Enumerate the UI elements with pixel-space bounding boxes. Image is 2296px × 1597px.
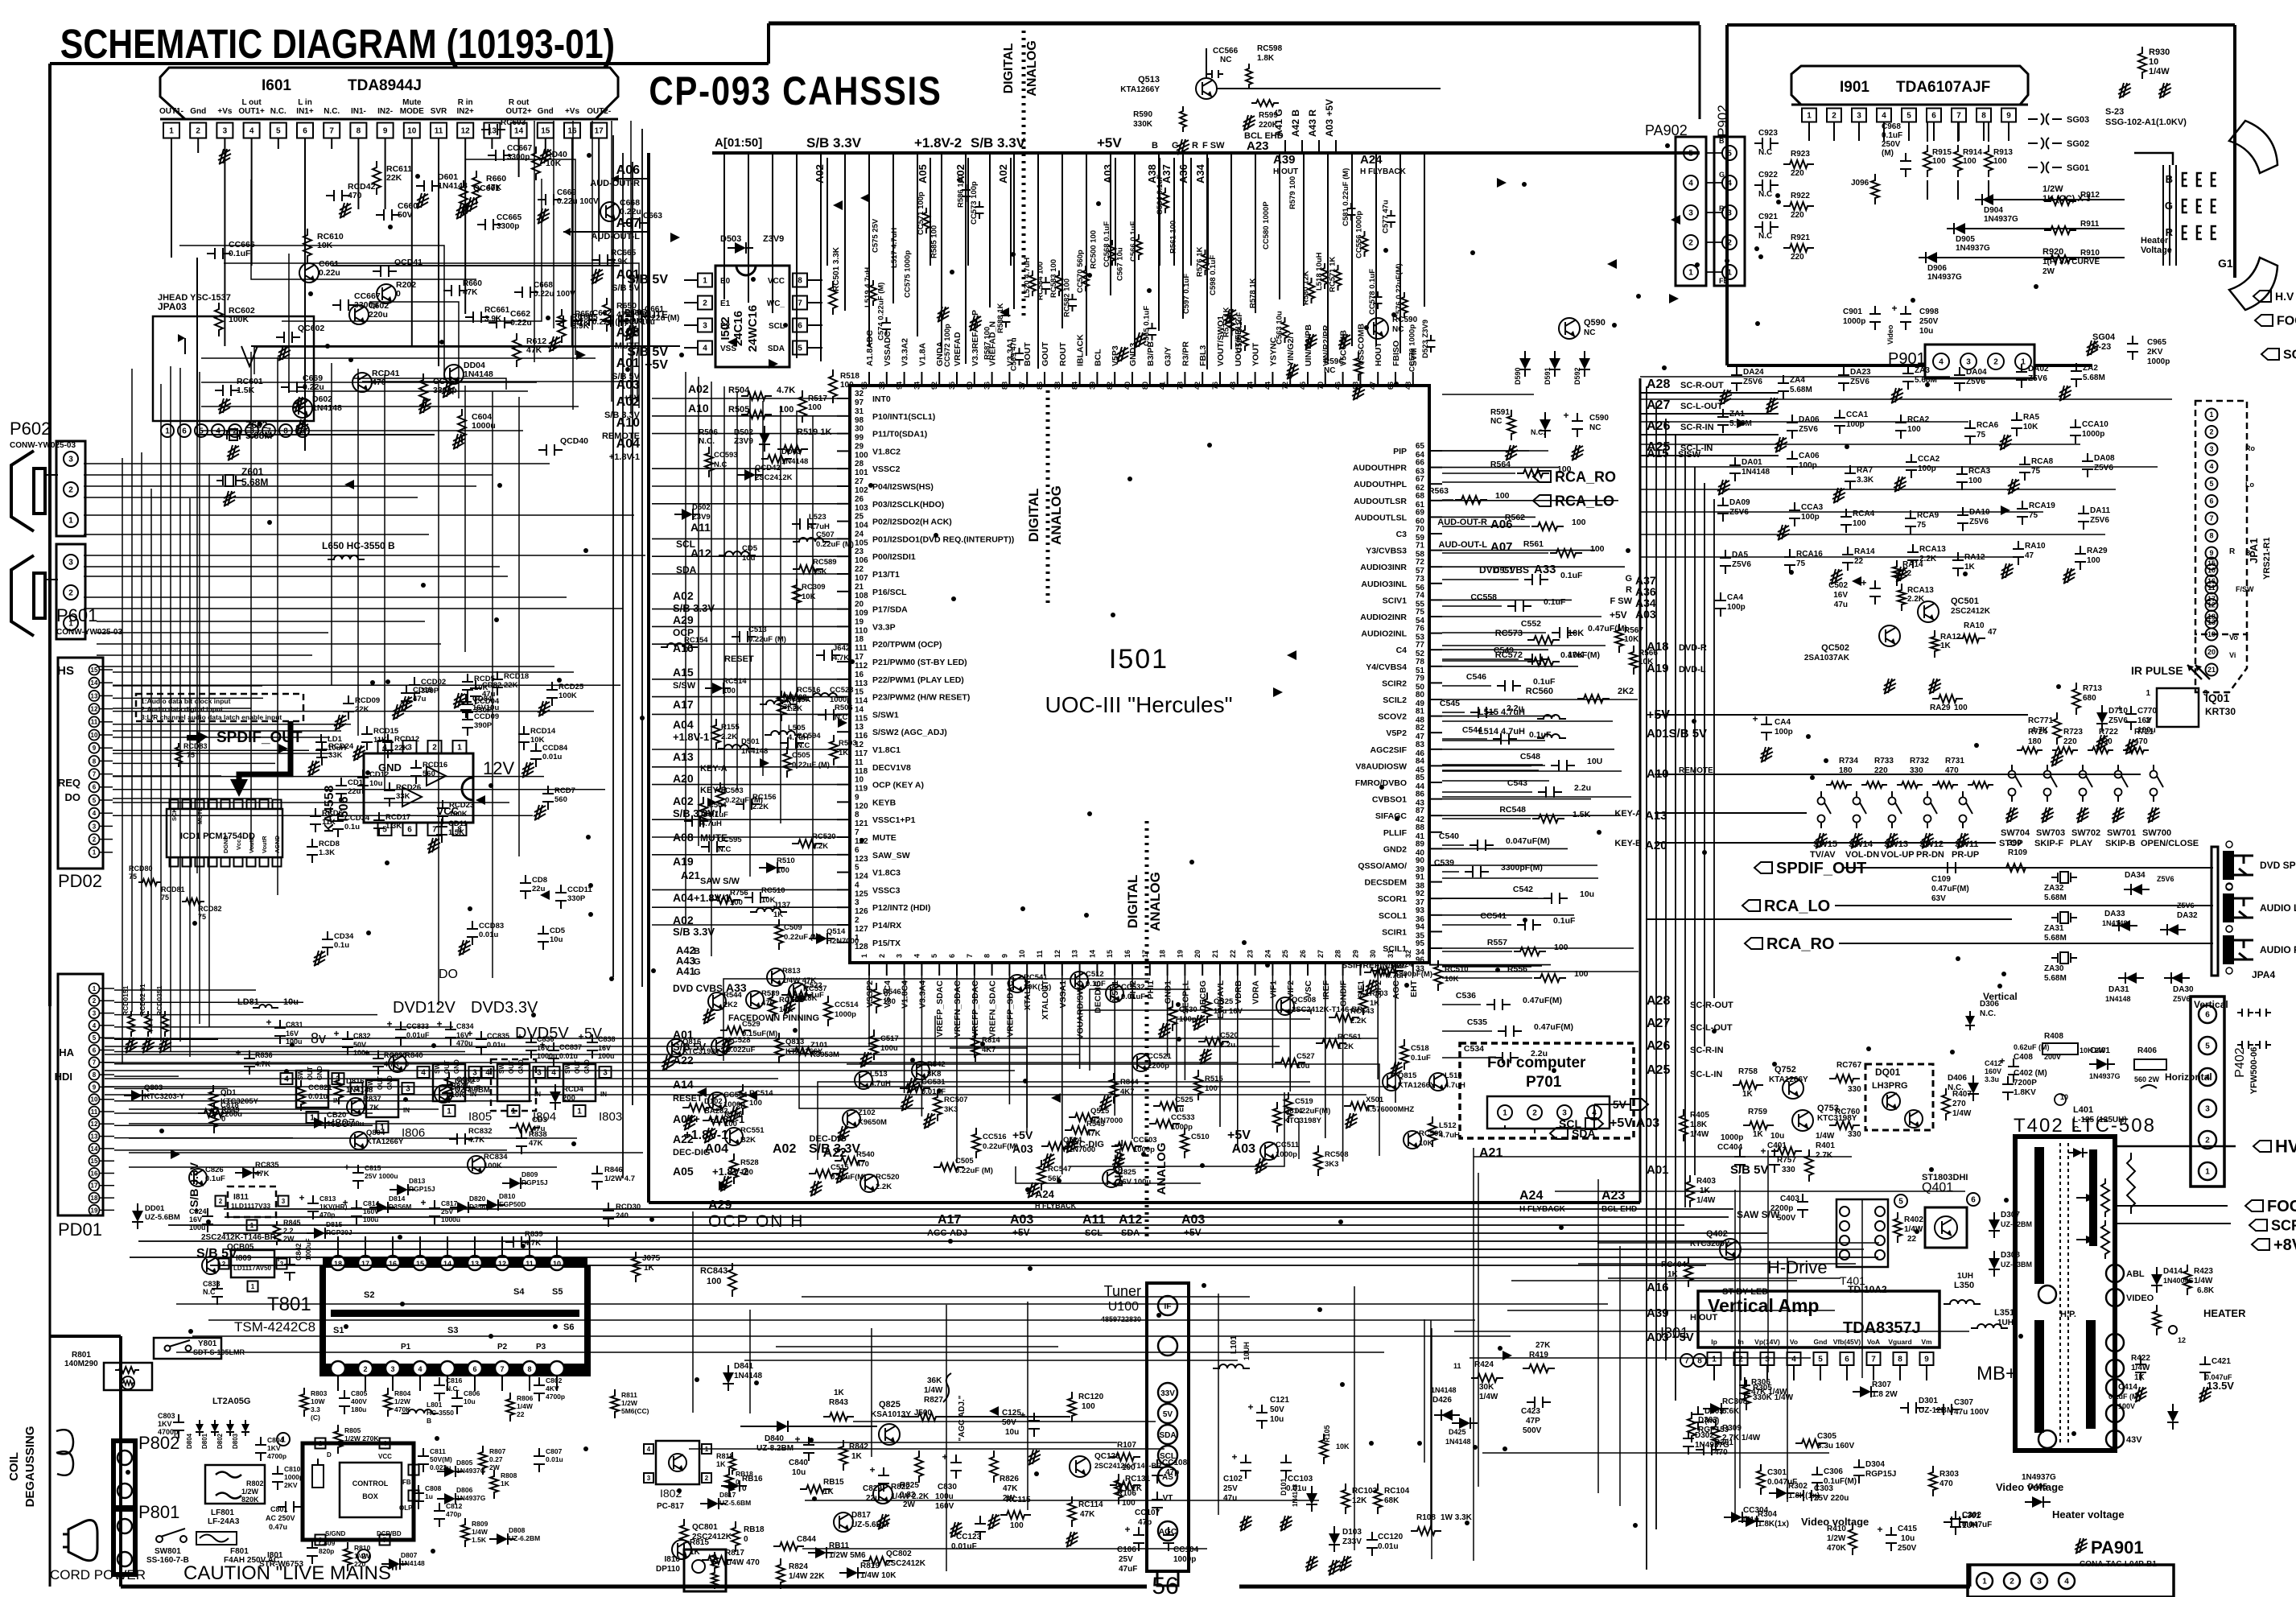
svg-text:R564: R564 [1490, 460, 1511, 469]
svg-text:C598 0.1uF: C598 0.1uF [1209, 255, 1218, 295]
svg-text:C808: C808 [425, 1484, 442, 1492]
svg-text:F SW: F SW [1610, 596, 1633, 606]
svg-text:10K: 10K [1568, 629, 1584, 638]
svg-text:5.68M: 5.68M [2044, 893, 2067, 902]
svg-text:KTA1266Y: KTA1266Y [1120, 85, 1160, 94]
svg-text:S2: S2 [364, 1290, 374, 1300]
svg-text:DIGITAL: DIGITAL [1002, 43, 1016, 93]
svg-text:C: C [2073, 1125, 2079, 1134]
svg-text:4: 4 [703, 345, 707, 353]
svg-text:J642: J642 [833, 644, 850, 653]
svg-text:0.1uF: 0.1uF [1882, 131, 1902, 140]
svg-text:DA23: DA23 [1850, 368, 1871, 377]
svg-text:C401: C401 [1767, 1141, 1787, 1150]
svg-text:20: 20 [855, 600, 864, 609]
svg-text:220: 220 [1791, 211, 1804, 220]
svg-text:RCD25: RCD25 [559, 683, 584, 691]
svg-text:S/B 3.3V: S/B 3.3V [971, 135, 1026, 151]
svg-text:100: 100 [1205, 1084, 1218, 1093]
svg-text:Horizontal: Horizontal [2165, 1071, 2212, 1083]
svg-text:Gnd: Gnd [1814, 1338, 1828, 1346]
svg-text:R913: R913 [1993, 148, 2013, 157]
svg-text:3: 3 [703, 322, 707, 331]
svg-text:R804: R804 [394, 1389, 411, 1397]
svg-text:3: 3 [855, 898, 859, 907]
svg-text:4: 4 [2209, 463, 2213, 471]
svg-text:R408: R408 [2044, 1032, 2063, 1041]
svg-text:110: 110 [855, 626, 868, 635]
svg-text:1N4148: 1N4148 [464, 369, 493, 379]
svg-text:220K: 220K [1259, 121, 1279, 130]
svg-text:0.01u: 0.01u [559, 1052, 578, 1060]
svg-text:19: 19 [855, 617, 864, 626]
svg-text:SCL: SCL [769, 322, 785, 331]
svg-text:TDA6107AJF: TDA6107AJF [1896, 79, 1990, 96]
svg-text:HEATER: HEATER [2203, 1307, 2246, 1319]
svg-text:6: 6 [303, 127, 307, 136]
svg-text:Z5V6: Z5V6 [2173, 995, 2191, 1003]
svg-text:CC837: CC837 [559, 1043, 582, 1051]
svg-text:2SC2412K: 2SC2412K [886, 1559, 926, 1568]
svg-text:C811: C811 [430, 1447, 446, 1455]
svg-text:1N4148: 1N4148 [1445, 1438, 1471, 1446]
svg-text:L out: L out [241, 98, 262, 107]
svg-text:C503: C503 [725, 786, 744, 795]
svg-text:47K: 47K [1086, 1129, 1101, 1138]
svg-text:100p: 100p [1727, 603, 1746, 612]
svg-text:10u: 10u [550, 935, 563, 944]
svg-text:N.C: N.C [1758, 232, 1772, 241]
svg-text:1/4W 22K: 1/4W 22K [789, 1572, 825, 1581]
svg-text:1: 1 [703, 277, 707, 286]
svg-text:C527: C527 [1296, 1052, 1315, 1061]
svg-text:10K: 10K [761, 896, 776, 905]
svg-text:3300p: 3300p [497, 222, 519, 231]
svg-text:21: 21 [855, 583, 864, 592]
svg-text:4.7K: 4.7K [363, 1104, 379, 1112]
svg-text:70: 70 [1416, 525, 1425, 534]
svg-text:70: 70 [1317, 382, 1325, 390]
svg-text:2K2: 2K2 [723, 1001, 737, 1009]
svg-text:OUT2+: OUT2+ [505, 107, 532, 116]
svg-text:AUDIO2INR: AUDIO2INR [1360, 613, 1407, 622]
svg-text:21: 21 [1211, 950, 1219, 958]
svg-text:CC593: CC593 [714, 451, 738, 460]
svg-text:VREFP_SDAC: VREFP_SDAC [971, 980, 980, 1038]
svg-text:2.2K: 2.2K [1350, 1017, 1366, 1025]
svg-text:0.47uF(M): 0.47uF(M) [1523, 996, 1562, 1005]
svg-text:DIGITAL: DIGITAL [1026, 489, 1041, 543]
svg-text:+: + [1752, 713, 1758, 724]
svg-text:PR-DN: PR-DN [1916, 850, 1944, 860]
svg-text:2: 2 [705, 1475, 709, 1482]
svg-text:4: 4 [647, 1446, 651, 1453]
svg-text:4: 4 [216, 427, 221, 436]
svg-text:E0: E0 [720, 277, 731, 286]
svg-text:17: 17 [1141, 950, 1149, 958]
svg-text:10u: 10u [1296, 1062, 1310, 1071]
svg-text:C307: C307 [1954, 1398, 1973, 1407]
svg-text:R731: R731 [1945, 757, 1964, 765]
svg-text:RC571 1K: RC571 1K [1329, 257, 1338, 292]
svg-text:CC573 100p: CC573 100p [970, 181, 979, 225]
svg-text:9: 9 [2209, 549, 2213, 557]
svg-text:TSM-4242C8: TSM-4242C8 [234, 1319, 315, 1335]
svg-text:3.3: 3.3 [311, 1405, 320, 1413]
svg-text:28: 28 [1334, 950, 1342, 958]
svg-text:CCA2: CCA2 [1918, 455, 1940, 464]
svg-text:CCD09: CCD09 [474, 712, 499, 721]
svg-text:34: 34 [913, 382, 921, 390]
svg-text:RC771: RC771 [2028, 716, 2054, 725]
svg-text:R911: R911 [2080, 220, 2100, 229]
svg-text:Voltage: Voltage [2141, 246, 2172, 255]
svg-text:8: 8 [798, 277, 802, 286]
svg-text:AC 250V: AC 250V [266, 1514, 295, 1522]
svg-text:6: 6 [2205, 1011, 2210, 1020]
svg-text:100: 100 [1572, 518, 1586, 527]
svg-text:1/4W: 1/4W [1816, 1132, 1835, 1141]
svg-text:Z5V6: Z5V6 [2177, 902, 2195, 910]
svg-text:4: 4 [855, 881, 859, 889]
svg-text:1: 1 [319, 1440, 323, 1447]
svg-text:10K: 10K [1568, 650, 1584, 660]
svg-text:C569 47u: C569 47u [1010, 337, 1019, 371]
svg-text:R59C: R59C [1324, 357, 1345, 366]
svg-text:17: 17 [595, 127, 604, 136]
svg-text:RC835: RC835 [255, 1161, 279, 1170]
svg-text:22K: 22K [394, 744, 409, 753]
svg-text:1/2W: 1/2W [2042, 184, 2063, 194]
svg-text:SG03: SG03 [2067, 115, 2089, 125]
svg-text:PC-817: PC-817 [657, 1502, 684, 1511]
svg-text:GOUT: GOUT [1041, 341, 1050, 366]
svg-text:R802: R802 [246, 1479, 264, 1488]
svg-text:C815: C815 [365, 1164, 381, 1172]
svg-text:99: 99 [855, 434, 864, 443]
svg-text:ZA1: ZA1 [1729, 410, 1745, 419]
svg-text:1/4W: 1/4W [472, 1528, 488, 1536]
svg-text:0.01uF: 0.01uF [951, 1542, 977, 1551]
svg-text:11: 11 [91, 719, 98, 726]
svg-text:IBLACK: IBLACK [1076, 334, 1086, 366]
svg-text:Heater: Heater [2141, 236, 2169, 246]
svg-text:50V: 50V [1002, 1418, 1016, 1427]
svg-text:R914: R914 [1963, 148, 1982, 157]
svg-text:GND: GND [386, 1075, 394, 1090]
svg-text:DGND: DGND [222, 835, 229, 853]
svg-text:(C): (C) [311, 1413, 320, 1422]
svg-text:93: 93 [1416, 906, 1425, 915]
svg-text:I801: I801 [267, 1551, 283, 1560]
svg-text:1K: 1K [851, 1452, 863, 1461]
svg-text:OLP: OLP [399, 1504, 413, 1512]
svg-text:43V: 43V [2126, 1435, 2142, 1445]
svg-text:D592: D592 [1573, 367, 1581, 385]
svg-text:68K: 68K [1384, 1496, 1399, 1505]
svg-text:0.22uF (M): 0.22uF (M) [725, 796, 763, 805]
svg-text:R307: R307 [1872, 1380, 1891, 1389]
svg-text:V1.8C4: V1.8C4 [901, 980, 910, 1009]
svg-text:CC103: CC103 [1288, 1475, 1313, 1484]
svg-text:QC602: QC602 [298, 324, 324, 333]
svg-text:RCD82: RCD82 [198, 905, 222, 913]
svg-text:5.68M: 5.68M [2083, 373, 2105, 382]
svg-text:30: 30 [1369, 950, 1377, 958]
svg-text:C505: C505 [792, 751, 810, 760]
svg-text:91: 91 [1416, 873, 1425, 882]
svg-text:F801: F801 [230, 1547, 249, 1556]
svg-text:KTC3198Y: KTC3198Y [1284, 1116, 1322, 1125]
svg-text:L801: L801 [427, 1401, 443, 1409]
svg-text:R803: R803 [311, 1389, 328, 1397]
svg-text:C412: C412 [1985, 1059, 2002, 1067]
svg-text:R: R [1192, 141, 1198, 151]
svg-text:7: 7 [266, 427, 271, 436]
svg-text:220: 220 [1874, 766, 1888, 775]
svg-text:3K3: 3K3 [1325, 1160, 1338, 1169]
svg-text:RC520: RC520 [812, 832, 836, 841]
svg-text:1/4W: 1/4W [2194, 1277, 2213, 1285]
svg-text:1N4148: 1N4148 [1742, 468, 1770, 477]
svg-text:A16: A16 [673, 642, 694, 654]
svg-text:A14: A14 [673, 1078, 694, 1091]
svg-text:GND1: GND1 [1164, 980, 1173, 1004]
svg-text:RGP15J: RGP15J [1698, 1426, 1729, 1434]
svg-text:IN2+: IN2+ [456, 107, 474, 116]
svg-text:C534: C534 [1464, 1044, 1484, 1054]
svg-text:RC520: RC520 [876, 1173, 900, 1182]
svg-text:HC-3550: HC-3550 [427, 1409, 454, 1417]
svg-text:AGC: AGC [1391, 980, 1401, 1000]
svg-text:+: + [2117, 703, 2122, 714]
svg-text:RCD6: RCD6 [322, 809, 343, 818]
svg-text:L519 4.7uH: L519 4.7uH [864, 267, 872, 307]
svg-text:G: G [1719, 171, 1725, 179]
svg-text:10u: 10u [369, 779, 383, 788]
svg-text:CD84: CD84 [472, 695, 493, 704]
svg-text:1000p: 1000p [1171, 1123, 1193, 1132]
svg-text:1: 1 [447, 1108, 451, 1116]
svg-text:CD12: CD12 [369, 770, 389, 779]
svg-text:1000p: 1000p [1721, 1133, 1743, 1142]
svg-text:I811: I811 [233, 1193, 249, 1202]
svg-text:119: 119 [855, 785, 868, 794]
svg-text:OCP (KEY A): OCP (KEY A) [872, 781, 924, 790]
svg-text:7: 7 [1956, 112, 1961, 121]
svg-text:220: 220 [2063, 737, 2077, 746]
svg-text:0.01u: 0.01u [479, 931, 498, 939]
svg-text:SW: SW [564, 1063, 571, 1074]
svg-text:RC582 100: RC582 100 [1063, 279, 1072, 317]
svg-text:66: 66 [1387, 382, 1395, 390]
svg-text:1/2W: 1/2W [394, 1397, 411, 1405]
svg-text:D806: D806 [456, 1486, 473, 1494]
svg-text:+Vs: +Vs [217, 107, 233, 116]
svg-text:RC510: RC510 [761, 886, 785, 895]
svg-text:RGP15J: RGP15J [1865, 1470, 1896, 1479]
svg-text:14: 14 [514, 127, 524, 136]
svg-text:C830: C830 [938, 1483, 957, 1492]
svg-text:V1.8A: V1.8A [917, 342, 927, 366]
svg-text:0.047uF(M): 0.047uF(M) [1506, 836, 1550, 846]
svg-text:G1: G1 [2218, 257, 2233, 270]
svg-text:5M6(CC): 5M6(CC) [621, 1407, 649, 1415]
svg-text:0.01u: 0.01u [546, 1455, 563, 1463]
svg-text:330: 330 [1910, 766, 1923, 775]
svg-text:0.62uF (M): 0.62uF (M) [2014, 1043, 2050, 1051]
svg-text:220u: 220u [369, 310, 388, 320]
svg-text:0.1u: 0.1u [334, 941, 349, 950]
svg-text:2: 2 [2010, 1578, 2014, 1587]
svg-text:11K: 11K [322, 818, 336, 827]
svg-text:10: 10 [1018, 950, 1026, 958]
svg-text:11: 11 [855, 758, 864, 767]
svg-text:A03: A03 [1635, 608, 1656, 621]
svg-text:SW703: SW703 [2036, 828, 2065, 838]
svg-text:C590: C590 [1589, 414, 1609, 423]
svg-text:RCD0351: RCD0351 [155, 985, 163, 1016]
svg-text:G: G [1625, 574, 1632, 584]
svg-text:100: 100 [1122, 1463, 1136, 1472]
svg-text:P21/PWM0 (ST-BY LED): P21/PWM0 (ST-BY LED) [872, 658, 967, 667]
svg-text:RCD83: RCD83 [183, 742, 208, 750]
svg-text:75: 75 [1416, 608, 1425, 617]
svg-text:R567: R567 [1624, 626, 1643, 635]
svg-text:2: 2 [432, 744, 437, 753]
svg-text:8: 8 [93, 757, 97, 765]
svg-text:1: 1 [577, 1108, 582, 1116]
svg-text:R578 1K: R578 1K [1249, 278, 1258, 308]
svg-text:CA4: CA4 [1775, 718, 1791, 727]
svg-text:47: 47 [2025, 551, 2034, 560]
svg-text:C663: C663 [643, 212, 662, 221]
svg-text:R563: R563 [1428, 486, 1449, 496]
svg-text:1.5K: 1.5K [1573, 810, 1591, 819]
svg-text:112: 112 [855, 662, 868, 671]
svg-text:C661: C661 [645, 305, 664, 314]
svg-text:CC570 560p: CC570 560p [1076, 250, 1085, 293]
svg-text:A07: A07 [1490, 540, 1513, 554]
svg-text:7: 7 [93, 770, 97, 778]
svg-text:75: 75 [187, 751, 195, 759]
svg-text:R811: R811 [621, 1391, 637, 1399]
svg-text:PA901: PA901 [2091, 1537, 2144, 1558]
svg-text:100: 100 [777, 866, 789, 875]
svg-text:109: 109 [855, 609, 868, 618]
svg-text:16: 16 [855, 671, 864, 679]
svg-text:A34: A34 [1194, 163, 1206, 184]
svg-text:Gnd: Gnd [190, 107, 206, 116]
svg-text:11: 11 [1036, 950, 1044, 958]
svg-text:470: 470 [2134, 737, 2148, 746]
svg-text:3: 3 [1966, 358, 1971, 367]
svg-text:R566: R566 [1639, 649, 1658, 658]
svg-text:1: 1 [1688, 269, 1693, 278]
svg-text:IN2-: IN2- [377, 107, 393, 116]
svg-text:Vertical Amp: Vertical Amp [1708, 1295, 1819, 1316]
svg-text:4: 4 [2064, 1578, 2069, 1587]
svg-text:P22/PWM1 (PLAY LED): P22/PWM1 (PLAY LED) [872, 675, 964, 685]
svg-text:G: G [2165, 200, 2173, 212]
svg-text:RESET: RESET [673, 1094, 703, 1104]
svg-text:1.8KV: 1.8KV [2014, 1088, 2036, 1097]
svg-text:22u: 22u [348, 787, 361, 796]
svg-text:+5V: +5V [1184, 1227, 1202, 1238]
svg-text:A05: A05 [673, 1165, 694, 1178]
svg-text:22: 22 [855, 565, 864, 574]
svg-text:100: 100 [1082, 1402, 1095, 1411]
svg-text:S/B 5V: S/B 5V [627, 273, 668, 287]
svg-text:SCIL2: SCIL2 [1383, 695, 1407, 705]
svg-text:CCA1: CCA1 [1846, 411, 1869, 419]
svg-text:4: 4 [418, 1365, 422, 1373]
svg-text:6: 6 [2209, 497, 2213, 506]
svg-text:2KV: 2KV [2147, 348, 2163, 357]
svg-text:RCD14: RCD14 [530, 727, 556, 736]
svg-text:ZA30: ZA30 [2044, 964, 2064, 973]
svg-text:4.7uH: 4.7uH [809, 522, 830, 531]
svg-text:97: 97 [855, 398, 864, 407]
svg-text:RC767: RC767 [1836, 1061, 1862, 1070]
svg-text:R842: R842 [849, 1442, 868, 1451]
svg-text:75: 75 [1977, 431, 1986, 439]
svg-text:7: 7 [500, 1365, 504, 1373]
svg-text:2SC2412K: 2SC2412K [1951, 607, 1991, 616]
svg-text:I301: I301 [1660, 1325, 1688, 1341]
svg-text:101: 101 [855, 468, 868, 477]
svg-text:3300pF(M): 3300pF(M) [1501, 863, 1543, 873]
svg-text:DVD-R: DVD-R [1679, 643, 1707, 653]
svg-text:10: 10 [91, 732, 98, 739]
svg-text:S/SW2 (AGC_ADJ): S/SW2 (AGC_ADJ) [872, 728, 947, 737]
svg-text:3.3u 160V: 3.3u 160V [1817, 1442, 1854, 1451]
svg-text:2: 2 [1993, 358, 1998, 367]
svg-text:H.P.: H.P. [2060, 1310, 2076, 1319]
svg-text:72: 72 [1416, 558, 1425, 567]
svg-text:Q514: Q514 [1063, 1136, 1082, 1145]
svg-text:2.2K: 2.2K [812, 842, 828, 851]
svg-text:A05: A05 [917, 164, 929, 184]
svg-text:+1.8V-1: +1.8V-1 [694, 892, 730, 904]
svg-text:1/4W: 1/4W [924, 1386, 943, 1395]
svg-text:23: 23 [855, 547, 864, 556]
svg-text:RC537: RC537 [803, 984, 827, 993]
svg-text:N.C.: N.C. [699, 437, 715, 446]
svg-text:48: 48 [1404, 382, 1412, 390]
svg-text:330: 330 [1848, 1085, 1861, 1094]
svg-text:R827: R827 [924, 1396, 943, 1405]
svg-text:R109: R109 [2008, 848, 2027, 857]
svg-text:P2: P2 [497, 1343, 508, 1351]
svg-text:47: 47 [1988, 628, 1997, 637]
svg-text:1K: 1K [1742, 1090, 1754, 1099]
svg-text:R405: R405 [1690, 1111, 1709, 1120]
svg-text:22: 22 [517, 1410, 525, 1418]
svg-text:3: 3 [2037, 1578, 2042, 1587]
svg-text:+1.8V-1: +1.8V-1 [673, 731, 709, 743]
svg-text:1.2K: 1.2K [786, 704, 802, 713]
svg-text:50V: 50V [1270, 1405, 1284, 1414]
svg-text:100K: 100K [449, 810, 468, 819]
svg-text:RCD0151: RCD0151 [122, 985, 130, 1016]
svg-text:OPEN/CLOSE: OPEN/CLOSE [2141, 839, 2199, 848]
svg-text:DA08: DA08 [2094, 454, 2115, 463]
svg-text:180: 180 [2028, 737, 2042, 746]
svg-text:+: + [869, 1464, 875, 1475]
svg-text:4.7K: 4.7K [525, 1239, 541, 1248]
svg-text:Vfb(45V): Vfb(45V) [1833, 1338, 1861, 1346]
